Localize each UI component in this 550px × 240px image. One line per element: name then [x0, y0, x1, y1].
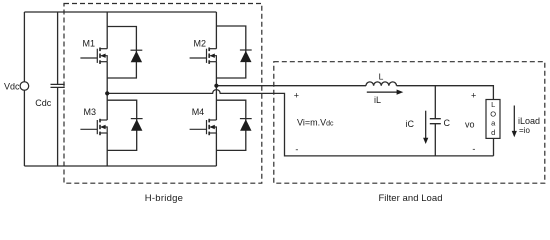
svg-text:iL: iL: [374, 95, 381, 105]
svg-text:-: -: [295, 145, 298, 155]
svg-text:C: C: [444, 118, 451, 128]
svg-text:=io: =io: [519, 126, 530, 135]
svg-text:L: L: [491, 100, 495, 109]
svg-text:Vdc: Vdc: [4, 81, 20, 91]
svg-text:O: O: [490, 110, 496, 119]
svg-text:Vi=m.Vdc: Vi=m.Vdc: [297, 118, 334, 128]
svg-text:M1: M1: [83, 39, 96, 49]
svg-text:L: L: [379, 72, 384, 82]
svg-text:+: +: [471, 91, 476, 101]
svg-text:M4: M4: [192, 107, 205, 117]
svg-text:Cdc: Cdc: [35, 98, 52, 108]
svg-text:M2: M2: [194, 39, 207, 49]
svg-text:iC: iC: [406, 119, 415, 129]
svg-text:-: -: [472, 144, 475, 154]
svg-text:H-bridge: H-bridge: [145, 193, 183, 204]
svg-text:+: +: [294, 90, 299, 100]
svg-text:vo: vo: [465, 120, 475, 130]
svg-text:d: d: [491, 128, 495, 137]
svg-text:M3: M3: [84, 107, 97, 117]
svg-text:Filter and Load: Filter and Load: [378, 193, 442, 204]
svg-text:iLoad: iLoad: [518, 116, 540, 126]
